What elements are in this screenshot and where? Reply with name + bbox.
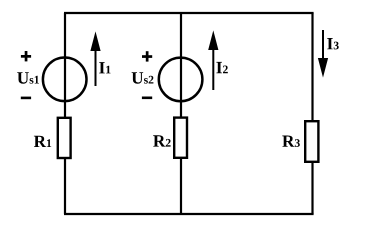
label R1 <box>34 136 51 147</box>
label R2 <box>153 135 170 146</box>
label I1 <box>99 62 110 73</box>
plus terminal of Us2 <box>142 51 152 61</box>
plus terminal of Us1 <box>21 51 31 61</box>
label Us2 <box>132 72 154 84</box>
voltage source Us2 <box>159 58 203 102</box>
label I2 <box>216 62 227 73</box>
label Us1 <box>17 72 39 84</box>
current arrow I1 (upward) <box>91 33 100 86</box>
wire bottom (common bottom node) <box>64 213 314 215</box>
voltage source Us1 <box>43 58 87 102</box>
resistor R1 <box>58 118 71 158</box>
resistor R2 <box>174 118 187 158</box>
minus terminal of Us1 <box>21 97 31 100</box>
wire top (top node joining the three branches) <box>64 12 314 14</box>
wire middle branch (Us2 / R2 branch) <box>180 13 182 214</box>
current arrow I3 (downward) <box>318 30 327 76</box>
minus terminal of Us2 <box>142 97 152 100</box>
label I3 <box>327 38 339 49</box>
label R3 <box>282 136 300 147</box>
current arrow I2 (upward) <box>209 32 218 90</box>
resistor R3 <box>305 121 318 162</box>
wire left branch (Us1 / R1 branch) <box>64 13 66 214</box>
wire right branch (R3 branch) <box>311 13 313 214</box>
